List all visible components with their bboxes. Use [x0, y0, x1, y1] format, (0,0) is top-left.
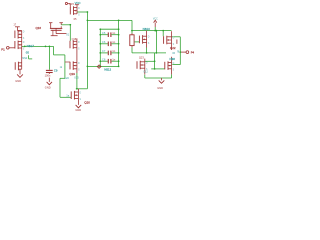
svg-text:100n: 100n — [45, 74, 51, 78]
svg-text:GND: GND — [45, 85, 51, 89]
svg-text:Q23: Q23 — [139, 55, 144, 59]
svg-text:01: 01 — [66, 33, 69, 37]
svg-text:C9: C9 — [54, 68, 58, 72]
svg-text:N$8: N$8 — [170, 57, 176, 61]
svg-text:GND: GND — [15, 79, 21, 83]
svg-text:N$17: N$17 — [27, 44, 35, 48]
svg-text:Q20: Q20 — [84, 101, 90, 105]
svg-text:Q22: Q22 — [170, 46, 176, 50]
svg-text:N$13: N$13 — [104, 67, 111, 71]
svg-text:1n: 1n — [112, 40, 115, 44]
svg-text:1a: 1a — [66, 93, 69, 97]
svg-text:1n: 1n — [112, 49, 115, 53]
svg-text:N$10: N$10 — [143, 27, 151, 31]
svg-text:P4: P4 — [191, 50, 195, 54]
svg-text:VCC: VCC — [153, 18, 158, 20]
svg-text:1a5: 1a5 — [64, 76, 69, 80]
svg-text:1n: 1n — [112, 31, 115, 35]
svg-text:05: 05 — [26, 51, 30, 55]
svg-text:Q18: Q18 — [72, 38, 77, 41]
svg-text:Q19: Q19 — [69, 72, 75, 76]
svg-text:C8: C8 — [102, 57, 106, 61]
svg-text:C5: C5 — [102, 31, 106, 35]
svg-text:C7: C7 — [102, 49, 106, 53]
svg-text:Q16: Q16 — [36, 26, 42, 30]
svg-text:Q15: Q15 — [69, 2, 75, 6]
svg-text:P1: P1 — [1, 48, 5, 52]
svg-text:N$2: N$2 — [22, 56, 27, 60]
svg-text:015: 015 — [74, 76, 79, 80]
svg-text:GND: GND — [157, 86, 163, 90]
svg-text:1n: 1n — [112, 57, 115, 61]
svg-text:C6: C6 — [102, 40, 106, 44]
svg-text:VCC: VCC — [75, 1, 81, 5]
svg-text:GND: GND — [75, 108, 81, 112]
